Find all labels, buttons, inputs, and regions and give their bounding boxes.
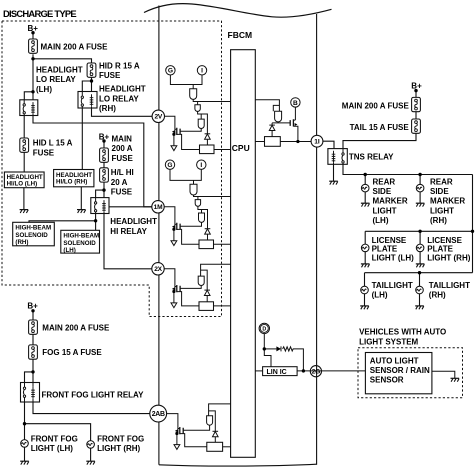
wire: fog LH lamp to ground: [24, 447, 26, 461]
label TAILLIGHT (RH): [429, 281, 470, 300]
wire: gate1 out / feedback to CPU: [193, 99, 230, 104]
ground (front fog LH): [20, 461, 29, 464]
diode D1 (2V driver): [205, 134, 211, 139]
wire: HI relay coil to pin 2X: [104, 214, 152, 269]
wire: pin 1I to TNS relay coil: [323, 141, 334, 148]
gate U2c (1M driver): [199, 213, 205, 222]
label TAILLIGHT (LH): [372, 281, 413, 300]
svg-text:HIGH-BEAM: HIGH-BEAM: [15, 225, 51, 232]
ground (TNS relay coil): [329, 181, 338, 184]
wire: source stem to arrow (2X): [173, 292, 175, 303]
wire: rear marker LH drop: [364, 175, 366, 204]
wire: HI/LO RH to ground: [80, 187, 82, 210]
svg-text:MAIN: MAIN: [112, 135, 133, 144]
fuse H/L HI 20 A: [100, 168, 109, 182]
wire: LH relay switch to HID L fuse: [23, 116, 25, 139]
wire: taillight LH drop: [364, 273, 366, 306]
block HIGH-BEAM SOLENOID (RH): [13, 222, 55, 246]
svg-text:B+: B+: [411, 81, 422, 90]
fuse HID L 15 A: [20, 138, 29, 152]
wire: 2AB to MOSFET source: [167, 414, 178, 434]
wire: LIN IC to pin 2G to sensor: [297, 370, 365, 372]
wire: source stem to arrow (2AB): [176, 434, 178, 445]
svg-text:PLATE: PLATE: [427, 245, 453, 254]
node junction dot marker RH: [418, 173, 421, 176]
wire: diode stem (B driver): [271, 123, 273, 137]
wire: gate out to MOSFET gate (2X): [180, 285, 201, 288]
diode D3 (2X driver): [204, 290, 210, 295]
wire: MOSFET drain to resistor (2AB): [180, 434, 207, 447]
ground (rear marker RH): [416, 203, 425, 206]
wire: FBCM torn-edge top boundary: [144, 4, 332, 18]
node junction dot MOSFET source: [172, 133, 175, 136]
ground (auto light sensor): [451, 378, 460, 381]
svg-text:HEADLIGHT: HEADLIGHT: [36, 65, 83, 74]
svg-text:SOLENOID: SOLENOID: [15, 232, 48, 239]
svg-text:(LH): (LH): [63, 247, 75, 254]
wire: G/I inputs to gate (1M): [170, 169, 201, 184]
svg-text:2G: 2G: [312, 369, 320, 376]
wire: FBCM right boundary bus: [316, 14, 318, 465]
svg-text:SENSOR: SENSOR: [370, 376, 404, 385]
wire: CPU output to gate (2X): [201, 264, 231, 276]
svg-text:H/L HI: H/L HI: [111, 168, 134, 177]
wire: diode branch stem: [201, 114, 207, 145]
svg-text:I: I: [200, 162, 202, 169]
svg-text:REAR: REAR: [373, 177, 396, 186]
svg-text:1M: 1M: [154, 204, 163, 211]
svg-text:HEADLIGHT: HEADLIGHT: [110, 217, 157, 226]
svg-text:B: B: [293, 100, 298, 107]
svg-text:(LH): (LH): [36, 85, 52, 94]
ground (headlight hi/lo LH): [20, 210, 29, 213]
node junction dot B+ tail: [414, 89, 417, 92]
label REAR SIDE MARKER LIGHT (RH): [430, 177, 465, 225]
wire: between fuses: [103, 162, 105, 168]
relay HEADLIGHT LO (LH): [20, 100, 38, 116]
svg-text:D: D: [262, 326, 266, 332]
wire: gate out to MOSFET gate (B driver): [272, 121, 290, 123]
wire: TAIL fuse down to TNS switch: [343, 133, 416, 148]
svg-text:200 A: 200 A: [112, 144, 133, 153]
svg-text:2AB: 2AB: [152, 411, 165, 418]
label FRONT FOG LIGHT (LH): [31, 434, 78, 453]
wire: MOSFET drain to resistor: [177, 134, 200, 149]
node junction dot fog lamp branch: [23, 422, 26, 425]
relay HEADLIGHT HI: [91, 198, 109, 214]
svg-text:VEHICLES WITH AUTO: VEHICLES WITH AUTO: [359, 328, 446, 337]
svg-text:MAIN 200 A FUSE: MAIN 200 A FUSE: [42, 323, 110, 332]
relay TNS: [328, 149, 347, 165]
svg-text:TAILLIGHT: TAILLIGHT: [429, 281, 470, 290]
svg-text:TNS RELAY: TNS RELAY: [349, 153, 394, 162]
svg-text:(RH): (RH): [429, 291, 446, 300]
svg-text:MARKER: MARKER: [373, 197, 408, 206]
wire: fuse to HI relay: [96, 182, 104, 198]
transistor Q5 (B driver MOSFET): [290, 119, 297, 126]
node continuation arrow (2V driver): [171, 146, 177, 151]
wire: branch to LH relay switch: [24, 92, 33, 100]
gate U2b (1M driver): [195, 200, 200, 207]
block auto light system dashed enclosure: [358, 348, 463, 398]
resistor R2 (1M driver): [199, 240, 214, 249]
wire: license LH drop: [364, 231, 366, 264]
svg-text:FUSE: FUSE: [33, 148, 55, 157]
svg-text:FBCM: FBCM: [228, 30, 253, 40]
gate U4 (2AB driver): [207, 416, 213, 425]
svg-text:LIGHT (RH): LIGHT (RH): [427, 253, 470, 262]
svg-text:SOLENOID: SOLENOID: [63, 240, 96, 247]
node junction dot solenoid branch: [94, 219, 97, 222]
wire: between fog fuses: [32, 334, 34, 345]
svg-text:LIN IC: LIN IC: [267, 369, 287, 376]
wire: RH relay switch to headlight hi/lo RH: [81, 108, 83, 170]
wire: MOSFET drain down: [293, 126, 298, 141]
resistor R6 (LIN pull-up zigzag): [283, 347, 296, 351]
svg-text:(LH): (LH): [372, 291, 388, 300]
node I (cluster 1M): [197, 160, 206, 169]
transistor Q4 (2AB driver MOSFET): [175, 427, 183, 434]
ground (taillight RH): [415, 306, 424, 309]
wire: G/I inputs to gate: [170, 75, 202, 89]
wire: into LH relay coil: [32, 92, 34, 100]
svg-text:FOG 15 A FUSE: FOG 15 A FUSE: [42, 348, 102, 357]
ground (headlight hi/lo RH): [77, 210, 86, 213]
wire: diode branch stem (2AB): [209, 411, 216, 442]
node junction dot LO relay feed: [31, 90, 34, 93]
transistor Q1 (2V driver MOSFET): [172, 128, 180, 135]
svg-text:FUSE: FUSE: [112, 154, 134, 163]
wire: CPU to gate (B driver): [255, 100, 279, 112]
svg-text:LICENSE: LICENSE: [372, 236, 407, 245]
wire: FBCM bottom boundary: [159, 464, 317, 466]
node D (LIN bus input, double ring): [259, 323, 269, 333]
wire: HID L fuse to headlight hi/lo LH: [23, 152, 25, 172]
svg-text:DISCHARGE TYPE: DISCHARGE TYPE: [3, 8, 76, 19]
svg-text:2X: 2X: [154, 266, 162, 273]
wire: branch to HID R fuse: [33, 59, 92, 63]
op-amp CPU box: [231, 50, 256, 458]
node junction dot LIN output: [302, 369, 305, 372]
node junction dot B+ HI: [102, 139, 105, 142]
svg-text:LO RELAY: LO RELAY: [99, 94, 139, 103]
svg-text:2V: 2V: [155, 114, 163, 121]
lamp REAR SIDE MARKER LIGHT (LH): [361, 184, 369, 192]
wire: fog relay coil to pin 2AB: [33, 402, 150, 414]
wire: B to MOSFET source: [294, 107, 296, 120]
wire: resistor to CPU (2X): [214, 305, 231, 307]
wire: RH relay coil to pin 2V: [92, 108, 153, 116]
wire: license RH drop: [419, 231, 421, 264]
wire: CPU output to gate (2AB): [209, 404, 231, 416]
svg-text:FRONT FOG: FRONT FOG: [31, 434, 78, 443]
node junction dot B+ fog: [31, 309, 34, 312]
svg-text:HI RELAY: HI RELAY: [110, 227, 147, 236]
node junction dot below D: [263, 347, 266, 350]
svg-text:FRONT FOG LIGHT RELAY: FRONT FOG LIGHT RELAY: [42, 391, 145, 400]
ground (license RH): [416, 264, 425, 267]
fuse TAIL 15 A: [412, 119, 421, 133]
relay FRONT FOG LIGHT: [21, 383, 40, 403]
fuse MAIN 200 A (headlight LO): [29, 39, 38, 53]
lamp TAILLIGHT (RH): [416, 286, 424, 294]
node junction dot HID R fuse output: [90, 79, 93, 82]
gate U3 (2X driver): [198, 276, 204, 285]
svg-text:20 A: 20 A: [111, 178, 128, 187]
svg-text:LIGHT (LH): LIGHT (LH): [372, 253, 415, 262]
svg-text:MAIN 200 A FUSE: MAIN 200 A FUSE: [342, 101, 410, 110]
diode D2 (1M driver): [205, 229, 211, 234]
node junction dot marker LH: [364, 173, 367, 176]
diode D4 (2AB driver): [213, 431, 219, 436]
wire: fuse output down to LO relay: [32, 59, 34, 92]
block HEADLIGHT HI/LO (LH): [4, 172, 44, 188]
pin 2X: [152, 263, 164, 275]
svg-text:LO RELAY: LO RELAY: [36, 75, 76, 84]
wire: 2V to MOSFET source: [165, 116, 175, 134]
node junction dot fuse output: [31, 57, 34, 60]
svg-text:AUTO LIGHT: AUTO LIGHT: [370, 356, 419, 365]
svg-text:HI/LO (RH): HI/LO (RH): [56, 179, 87, 186]
svg-text:TAILLIGHT: TAILLIGHT: [372, 281, 413, 290]
lamp FRONT FOG LIGHT (LH): [21, 440, 29, 448]
block HIGH-BEAM SOLENOID (LH): [61, 230, 100, 254]
pin 2G: [310, 366, 321, 377]
wire: MOSFET drain to resistor (1M): [177, 229, 199, 244]
fuse MAIN 200 A (fog): [29, 320, 38, 334]
fuse HID R 15 A: [87, 63, 96, 77]
gate U2a (1M driver): [190, 184, 197, 195]
wire: DISCHARGE TYPE dashed outline: [2, 21, 222, 317]
wire: TNS coil to ground: [333, 164, 335, 181]
relay HEADLIGHT LO (RH): [78, 92, 97, 109]
label LICENSE PLATE LIGHT (RH): [427, 236, 470, 262]
wire: rear marker RH drop: [419, 175, 421, 204]
svg-text:HEADLIGHT: HEADLIGHT: [99, 85, 146, 94]
label REAR SIDE MARKER LIGHT (LH): [373, 177, 408, 225]
wire: gate1 out / feedback to CPU (1M): [194, 195, 231, 200]
lamp LICENSE PLATE LIGHT (RH): [416, 244, 424, 252]
block AUTO LIGHT SENSOR / RAIN SENSOR: [365, 353, 432, 394]
svg-text:PLATE: PLATE: [372, 245, 398, 254]
resistor R1 (2V driver): [200, 145, 215, 154]
resistor R5 (B driver): [265, 137, 281, 147]
wire: diode branch stem (1M): [202, 210, 208, 241]
gate U1a (2V driver): [190, 89, 197, 100]
svg-text:(RH): (RH): [430, 216, 447, 225]
svg-text:LIGHT (LH): LIGHT (LH): [31, 444, 74, 453]
wire: HI relay box to pin 1M: [109, 206, 152, 208]
wire: LH relay coil to pin 1M: [33, 116, 152, 207]
wire: between tail fuses: [415, 112, 417, 119]
wire: gate3 out to MOSFET gate: [180, 129, 201, 132]
node junction dot license right end: [471, 230, 474, 233]
block HEADLIGHT HI/LO (RH): [54, 170, 94, 187]
wire: gate2 to gate3 jog: [198, 111, 202, 119]
wire: sensor to ground: [432, 371, 455, 378]
diode D6 (LIN series diode): [276, 346, 281, 351]
pin 2AB: [150, 405, 167, 422]
gate U5 (B driver): [275, 111, 282, 122]
svg-text:HID R 15 A: HID R 15 A: [99, 61, 140, 70]
svg-text:LIGHT: LIGHT: [430, 206, 454, 215]
svg-text:SIDE: SIDE: [373, 187, 392, 196]
node junction dot HI relay feed: [102, 188, 105, 191]
svg-text:HID L 15 A: HID L 15 A: [33, 139, 73, 148]
ground (taillight LH): [360, 306, 369, 309]
pin 1M: [152, 201, 164, 213]
svg-text:MAIN 200 A FUSE: MAIN 200 A FUSE: [41, 43, 109, 52]
wire: taillight RH drop: [419, 273, 421, 306]
fuse FOG 15 A: [29, 345, 38, 359]
wire: resistor to CPU (2AB): [223, 446, 231, 448]
op-amp LIN IC: [263, 367, 298, 376]
transistor Q2 (1M driver MOSFET): [172, 223, 180, 230]
svg-text:LIGHT: LIGHT: [373, 206, 397, 215]
wire: 2X to MOSFET source: [164, 269, 175, 292]
svg-text:MARKER: MARKER: [430, 197, 465, 206]
wire: FBCM left boundary bus: [158, 6, 160, 465]
wire: gate2 to gate3 jog (1M): [198, 206, 202, 213]
node continuation arrow (1M driver): [171, 241, 177, 246]
wire: junction to LIN IC jog: [264, 349, 271, 367]
svg-text:1I: 1I: [314, 139, 320, 146]
fuse MAIN 200 A (HI): [100, 148, 109, 162]
node junction dot B+: [31, 31, 34, 34]
pin 1I: [311, 135, 323, 147]
resistor R3 (2X driver): [199, 302, 214, 311]
wire: diode branch stem (2X): [201, 270, 208, 302]
fuse MAIN 200 A (tail): [412, 97, 421, 111]
svg-text:SENSOR / RAIN: SENSOR / RAIN: [370, 366, 430, 375]
lamp FRONT FOG LIGHT (RH): [87, 441, 95, 449]
node junction dot MOSFET source (1M): [172, 228, 175, 231]
diode D5 (B driver): [269, 125, 275, 130]
label LICENSE PLATE LIGHT (LH): [372, 236, 415, 262]
wire: HI/LO LH to ground: [23, 188, 25, 210]
wire: resistor to CPU (1M): [214, 243, 231, 245]
label VEHICLES WITH AUTO LIGHT SYSTEM: [359, 328, 446, 347]
wire: B+ to MAIN fuse: [32, 54, 34, 59]
wire: fog relay switch to lamps: [25, 402, 91, 441]
wire: fog RH lamp to ground: [90, 448, 92, 461]
wire: gate3 out to MOSFET gate (1M): [180, 222, 201, 226]
wire: TNS switch to lamp bus: [343, 164, 473, 174]
node junction dot license RH: [418, 230, 421, 233]
node continuation arrow (2AB driver): [174, 445, 180, 450]
svg-text:(RH): (RH): [15, 239, 28, 246]
wire: 1M to MOSFET source: [164, 207, 175, 230]
gate U1c (2V driver): [198, 119, 204, 128]
wire: pull-up branch down to LIN output: [296, 349, 303, 371]
node G (cluster 1M): [165, 160, 174, 169]
svg-text:REAR: REAR: [430, 177, 453, 186]
ground (front fog RH): [86, 461, 95, 464]
node G (cluster 2V): [166, 66, 175, 75]
wire: junction to series diode: [264, 348, 276, 350]
wire: taillight row bus: [365, 272, 473, 274]
node continuation arrow (2X driver): [171, 303, 177, 308]
ground (license LH): [361, 264, 370, 267]
node junction dot drain/resistor (B driver): [296, 140, 299, 143]
wire: HI relay switch to solenoids: [29, 214, 96, 231]
wire: CPU to resistor (B driver): [255, 141, 264, 143]
lamp REAR SIDE MARKER LIGHT (RH): [416, 184, 424, 192]
svg-text:(LH): (LH): [373, 216, 389, 225]
resistor R4 (2AB driver): [207, 442, 223, 451]
pin 2V: [152, 110, 164, 122]
ground (rear marker LH): [361, 203, 370, 206]
svg-text:LIGHT (RH): LIGHT (RH): [97, 444, 140, 453]
node B (battery input): [291, 98, 300, 107]
svg-text:LIGHT SYSTEM: LIGHT SYSTEM: [359, 337, 418, 346]
svg-text:G: G: [168, 68, 173, 75]
wire: right bus down the lamp rows: [472, 175, 474, 273]
svg-text:HIGH-BEAM: HIGH-BEAM: [63, 233, 99, 240]
gate U1b (2V driver): [195, 105, 200, 112]
node junction dot MOSFET source (2AB): [175, 432, 178, 435]
label FRONT FOG LIGHT (RH): [97, 434, 144, 453]
svg-text:SIDE: SIDE: [430, 187, 449, 196]
wire: CPU to LIN IC: [255, 370, 262, 372]
svg-text:(RH): (RH): [99, 104, 116, 113]
wire: fog fuse to relay: [25, 359, 34, 382]
node junction dot taillight RH: [418, 271, 421, 274]
wire: D down to junction: [263, 334, 265, 349]
svg-text:FUSE: FUSE: [99, 71, 121, 80]
svg-text:LICENSE: LICENSE: [427, 236, 462, 245]
transistor Q3 (2X driver MOSFET): [172, 285, 180, 292]
svg-text:I: I: [201, 68, 203, 75]
power B+ battery feed (headlight LO): [32, 33, 34, 39]
node junction dot fog relay feed: [31, 370, 34, 373]
wire: source stem to arrow: [173, 134, 175, 146]
wire: resistor to drain node to pin 1I: [280, 141, 311, 143]
wire: license row bus: [365, 230, 472, 232]
lamp LICENSE PLATE LIGHT (LH): [361, 244, 369, 252]
wire: MOSFET drain to resistor (2X): [177, 292, 199, 306]
lamp TAILLIGHT (LH): [361, 286, 369, 294]
wire: source stem to arrow (1M): [173, 229, 175, 240]
svg-text:CPU: CPU: [232, 143, 250, 153]
wire: HID R fuse out to RH relay: [82, 77, 91, 91]
node junction dot MOSFET source (2X): [172, 290, 175, 293]
svg-text:FUSE: FUSE: [111, 188, 133, 197]
svg-text:G: G: [167, 162, 172, 169]
svg-text:HI/LO (LH): HI/LO (LH): [7, 181, 38, 188]
svg-text:TAIL 15 A FUSE: TAIL 15 A FUSE: [350, 123, 410, 132]
node I (cluster 2V): [197, 66, 206, 75]
wire: resistor to CPU: [214, 149, 231, 151]
wire: gate out to MOSFET gate (2AB): [183, 425, 209, 430]
svg-text:FRONT FOG: FRONT FOG: [97, 434, 144, 443]
